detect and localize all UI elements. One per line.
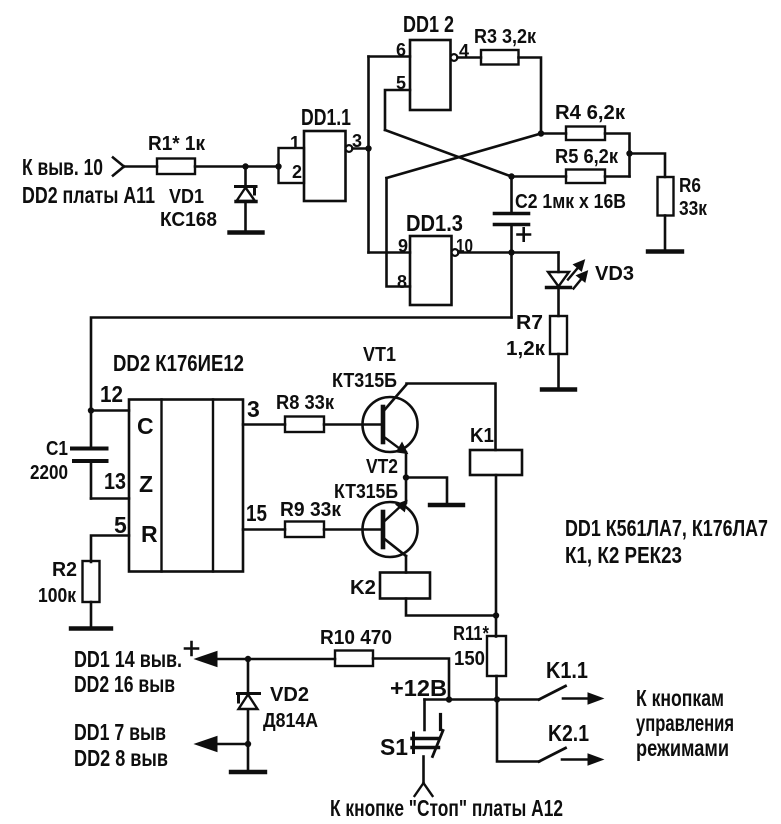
svg-text:VD3: VD3 <box>595 263 634 285</box>
node junction VD1 <box>242 163 248 169</box>
svg-text:33к: 33к <box>679 198 708 220</box>
wire node A to R4 <box>541 132 566 135</box>
svg-text:КТ315Б: КТ315Б <box>334 481 398 503</box>
resistor R7 <box>550 316 567 354</box>
zener VD1 <box>244 167 247 187</box>
resistor R8 <box>285 417 324 433</box>
node VD2 top <box>245 656 251 662</box>
wire DD1.1 pin3 out <box>352 147 368 150</box>
wire R4 right side <box>605 134 630 177</box>
wire DD1.3 pin9 <box>369 251 411 254</box>
wire vertical bus pin3 <box>367 57 370 253</box>
svg-text:3: 3 <box>352 131 362 151</box>
svg-text:5: 5 <box>396 73 406 93</box>
svg-text:5: 5 <box>114 512 127 538</box>
wire to R11 <box>495 616 498 637</box>
svg-text:DD2 8 выв: DD2 8 выв <box>74 745 168 771</box>
svg-text:DD1 7 выв: DD1 7 выв <box>74 719 166 745</box>
zener VD2 <box>247 659 250 693</box>
wire long bus to DD2 <box>91 318 512 411</box>
node R11 bottom <box>494 696 500 702</box>
svg-text:Д814А: Д814А <box>263 710 318 732</box>
IC DD2 <box>129 400 243 572</box>
node input connector К выв.10 <box>113 158 124 176</box>
svg-text:R1* 1к: R1* 1к <box>148 133 206 155</box>
svg-text:DD1 2: DD1 2 <box>403 11 454 37</box>
wire pin13 <box>91 497 129 500</box>
wire K1 down <box>495 475 498 616</box>
svg-text:9: 9 <box>398 236 408 256</box>
svg-text:VD2: VD2 <box>270 684 309 706</box>
wire to R6 <box>630 154 666 178</box>
svg-text:12: 12 <box>100 381 123 407</box>
node connector S1 down <box>415 783 433 796</box>
svg-text:DD2 платы А11: DD2 платы А11 <box>22 182 155 208</box>
capacitor C2 <box>510 177 513 213</box>
svg-text:R2: R2 <box>52 559 77 581</box>
svg-text:DD2 16 выв: DD2 16 выв <box>74 671 175 697</box>
op-amp gate DD1.2 <box>410 40 451 110</box>
ground R6 <box>648 249 682 253</box>
node A <box>538 130 544 136</box>
svg-text:DD1 К561ЛА7, К176ЛА7: DD1 К561ЛА7, К176ЛА7 <box>565 515 768 541</box>
LED VD3 <box>557 253 560 273</box>
switch K1.1 <box>539 686 566 700</box>
resistor R1 <box>157 159 195 175</box>
svg-text:R11*: R11* <box>453 623 489 645</box>
wire R7 to ground <box>557 354 560 388</box>
svg-text:R7: R7 <box>516 312 543 334</box>
resistor R3 <box>481 50 519 65</box>
resistor R4 <box>566 127 605 141</box>
arrow DD1-7 left <box>213 743 248 746</box>
transistor VT1 <box>363 397 418 452</box>
wire DD1.3 pin8 vertical <box>387 178 411 287</box>
wire to DD1.2 pin6 <box>369 55 411 58</box>
wire emitter node to ground <box>406 478 447 504</box>
svg-text:DD2 К176ИЕ12: DD2 К176ИЕ12 <box>113 350 244 376</box>
node K1 K2 join <box>493 612 499 618</box>
capacitor C1 <box>90 411 93 447</box>
wire R8 to VT1 base <box>324 423 383 426</box>
relay K1 <box>470 450 522 475</box>
svg-text:150: 150 <box>454 648 485 670</box>
svg-text:1,2к: 1,2к <box>506 338 546 360</box>
op-amp gate DD1.1 <box>279 148 305 183</box>
wire VT1 collector to K1 <box>407 384 496 451</box>
svg-text:R3 3,2к: R3 3,2к <box>474 26 537 48</box>
svg-text:3: 3 <box>247 396 260 422</box>
svg-text:2: 2 <box>292 162 302 182</box>
wire DD1.2 pin5 <box>385 90 410 130</box>
wire pin3 to R8 <box>243 423 285 426</box>
svg-text:R6: R6 <box>679 175 701 197</box>
svg-text:управления: управления <box>636 710 734 736</box>
svg-text:VD1: VD1 <box>169 186 204 208</box>
wire R9 to VT2 base <box>324 528 383 531</box>
wire pin12 <box>91 409 129 412</box>
switch K2.1 <box>497 700 539 762</box>
wire R3 to node A <box>519 58 542 134</box>
svg-text:КС168: КС168 <box>160 209 217 231</box>
node pin12 <box>88 407 94 413</box>
svg-text:K1.1: K1.1 <box>546 657 588 683</box>
wire node to long bus <box>510 253 513 318</box>
svg-text:R: R <box>141 521 158 547</box>
svg-text:+12В: +12В <box>390 675 447 701</box>
ground emitters <box>430 503 463 507</box>
resistor R9 <box>285 522 324 538</box>
svg-text:C: C <box>137 413 154 439</box>
resistor R2 <box>83 561 100 602</box>
svg-text:Z: Z <box>139 471 153 497</box>
node DD1.1 input junction <box>275 163 281 169</box>
wire diagonal pin5 to node B <box>385 130 512 177</box>
wire R1 to DD1.1 <box>195 165 279 168</box>
node R6 tap <box>626 150 632 156</box>
arrow supply left <box>213 658 335 661</box>
wire R11 down <box>495 676 498 700</box>
svg-text:C1: C1 <box>46 438 68 460</box>
wire node B to R5 <box>512 175 567 178</box>
svg-text:1: 1 <box>290 133 300 153</box>
node C2 bottom <box>508 249 514 255</box>
ground VD2 <box>231 770 265 774</box>
relay K2 <box>380 573 430 599</box>
wire VT1 emitter <box>405 453 408 478</box>
svg-text:K2: K2 <box>350 577 376 599</box>
wire VT2 collector to K2 <box>405 556 408 573</box>
svg-text:4: 4 <box>459 41 469 61</box>
svg-text:2200: 2200 <box>30 462 68 484</box>
node VD2 bottom <box>245 741 251 747</box>
node pin3 bus <box>365 145 371 151</box>
wire R10 to +12V corner <box>373 659 449 700</box>
wire pin15 to R9 <box>243 528 285 531</box>
svg-text:10: 10 <box>456 236 473 256</box>
svg-text:VT1: VT1 <box>363 344 396 366</box>
wire VT2 emitter up <box>405 478 408 503</box>
wire +12V rail <box>425 698 540 701</box>
resistor R5 <box>566 170 605 184</box>
svg-text:100к: 100к <box>38 585 77 607</box>
op-amp gate DD1.3 <box>410 236 452 305</box>
svg-text:S1: S1 <box>380 734 408 760</box>
ground R7 <box>542 387 575 391</box>
wire R2 to ground <box>90 602 93 627</box>
svg-text:режимами: режимами <box>636 735 729 761</box>
node B <box>508 173 514 179</box>
svg-text:6: 6 <box>396 40 406 60</box>
svg-text:К1, К2 РЕК23: К1, К2 РЕК23 <box>565 542 682 568</box>
svg-text:15: 15 <box>246 500 267 526</box>
wire DD1.2 out to R3 <box>457 56 481 59</box>
svg-text:R10 470: R10 470 <box>320 627 392 649</box>
resistor R11 <box>487 636 506 676</box>
svg-text:8: 8 <box>397 272 407 292</box>
wire input to R1 <box>124 165 157 168</box>
svg-text:DD1.1: DD1.1 <box>301 104 351 130</box>
svg-text:R8 33к: R8 33к <box>276 392 335 414</box>
svg-text:К кнопке "Стоп" платы А12: К кнопке "Стоп" платы А12 <box>330 795 563 821</box>
svg-text:13: 13 <box>104 468 126 494</box>
svg-text:R5 6,2к: R5 6,2к <box>555 146 619 168</box>
svg-text:K2.1: K2.1 <box>548 720 589 746</box>
wire K2 to junction <box>406 599 496 616</box>
wire pin5 <box>91 536 129 563</box>
ground VD1 <box>230 230 263 234</box>
resistor R10 <box>335 651 373 667</box>
transistor VT2 <box>363 502 418 557</box>
svg-text:R9 33к: R9 33к <box>280 499 342 521</box>
svg-text:КТ315Б: КТ315Б <box>332 370 397 392</box>
node S1 tap <box>446 696 452 702</box>
svg-text:К выв. 10: К выв. 10 <box>22 154 103 180</box>
node emitters <box>403 474 409 480</box>
pushbutton S1 <box>423 700 426 731</box>
svg-text:DD1.3: DD1.3 <box>406 210 463 236</box>
resistor R6 <box>658 177 674 216</box>
wire R6 to ground <box>664 216 667 251</box>
svg-text:R4 6,2к: R4 6,2к <box>555 102 626 124</box>
wire R5 right side <box>605 175 630 178</box>
wire VD2 to ground <box>247 744 250 770</box>
ground R2 <box>71 626 111 630</box>
wire diagonal pin8 to node A <box>387 134 542 179</box>
svg-text:DD1 14 выв.: DD1 14 выв. <box>74 646 182 672</box>
svg-text:VT2: VT2 <box>366 456 398 478</box>
svg-text:K1: K1 <box>470 425 494 447</box>
svg-text:С2 1мк х 16В: С2 1мк х 16В <box>515 191 626 213</box>
svg-text:К кнопкам: К кнопкам <box>636 685 724 711</box>
wire DD1.3 pin10 out <box>458 251 558 254</box>
